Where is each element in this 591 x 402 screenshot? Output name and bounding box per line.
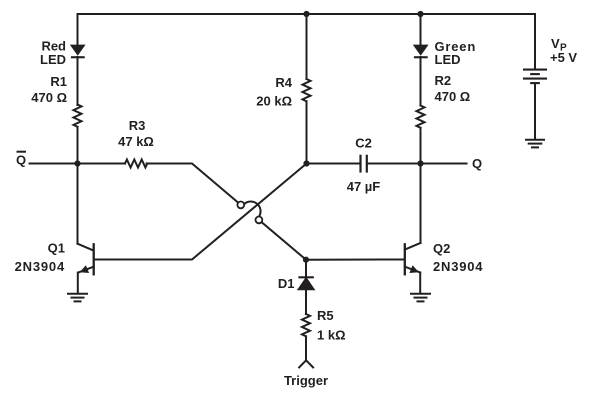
wire R4 to node A: [306, 101, 308, 163]
battery VP: [524, 70, 546, 140]
wire LED green cathode to R2: [420, 57, 422, 106]
wire node A to C2: [307, 163, 360, 165]
svg-text:R5: R5: [317, 308, 334, 323]
svg-text:V: V: [551, 36, 560, 51]
resistor R1: [74, 105, 82, 127]
wire node B to Q2 base: [306, 259, 404, 261]
label VP supply: [550, 36, 577, 65]
crossover circle lower: [256, 217, 263, 224]
svg-text:Q: Q: [472, 156, 482, 171]
svg-text:R2: R2: [435, 73, 452, 88]
LED green: [413, 45, 429, 59]
transistor Q1: [78, 244, 94, 294]
wire Q stub: [421, 163, 467, 165]
crossover circle upper: [237, 202, 244, 209]
wire node B down to D1: [305, 260, 307, 277]
svg-text:2N3904: 2N3904: [15, 259, 65, 274]
svg-text:R3: R3: [129, 118, 146, 133]
ground Q1: [68, 294, 87, 302]
svg-text:LED: LED: [435, 52, 461, 67]
wire Q1 base to node A (ascending): [95, 164, 307, 260]
node R4 rail: [303, 11, 309, 17]
node A: [303, 160, 309, 166]
transistor Q2 emitter arrow: [409, 265, 419, 273]
svg-text:20 kΩ: 20 kΩ: [256, 94, 292, 109]
label Q1: [15, 240, 65, 273]
label Qbar output: [16, 152, 26, 168]
wire R4 top: [306, 14, 308, 79]
node B: [303, 257, 309, 263]
svg-text:Trigger: Trigger: [284, 373, 328, 388]
wire crossover to node B (descending): [259, 220, 306, 260]
svg-text:C2: C2: [355, 136, 372, 151]
label R5 value: [317, 308, 346, 343]
wire R3 to crossover (descending): [147, 164, 241, 205]
label Green LED: [435, 39, 477, 67]
label R3 value: [118, 118, 154, 149]
label R4 value: [256, 75, 292, 109]
svg-text:2N3904: 2N3904: [433, 259, 483, 274]
resistor R2: [417, 106, 425, 128]
LED red: [70, 45, 86, 59]
node Qbar: [74, 160, 80, 166]
wire R5 to trigger: [305, 336, 307, 360]
wire green LED feed: [420, 14, 422, 45]
svg-text:470 Ω: 470 Ω: [31, 90, 67, 105]
wire top rail: [78, 14, 536, 69]
svg-text:R1: R1: [50, 74, 67, 89]
svg-text:LED: LED: [40, 52, 66, 67]
svg-text:D1: D1: [278, 276, 295, 291]
wire R1 to node Qbar: [77, 127, 79, 164]
svg-text:1 kΩ: 1 kΩ: [317, 328, 346, 343]
label Red LED: [40, 39, 66, 68]
node LED green rail: [417, 11, 423, 17]
transistor Q1 emitter arrow: [80, 265, 90, 273]
wire node Qbar to R3: [78, 163, 126, 165]
ground Q2: [411, 294, 430, 302]
trigger input chevron: [299, 360, 313, 367]
wire C2 to node Q: [368, 163, 421, 165]
svg-text:+5 V: +5 V: [550, 50, 577, 65]
wire Qbar stub: [30, 163, 78, 165]
transistor Q2: [405, 243, 421, 294]
svg-text:470 Ω: 470 Ω: [435, 89, 471, 104]
label C2 value: [347, 136, 381, 195]
svg-text:Q1: Q1: [48, 240, 65, 255]
node Q: [417, 160, 423, 166]
svg-text:Q2: Q2: [433, 241, 450, 256]
label R2 value: [435, 73, 471, 104]
wire hop arc: [244, 201, 260, 216]
ground battery: [526, 140, 544, 148]
svg-text:47 kΩ: 47 kΩ: [118, 134, 154, 149]
resistor R5: [302, 314, 310, 336]
diode D1: [299, 277, 314, 314]
svg-text:R4: R4: [275, 75, 292, 90]
resistor R3: [125, 160, 147, 168]
resistor R4: [303, 79, 311, 101]
wire node Qbar down to Q1 collector: [77, 164, 79, 244]
wire LED red cathode to R1: [77, 57, 79, 105]
wire R2 to node Q to Q2 collector: [420, 128, 422, 243]
svg-text:47 µF: 47 µF: [347, 179, 381, 194]
label Q2: [433, 241, 483, 274]
capacitor C2: [361, 156, 367, 172]
svg-text:Q: Q: [16, 152, 26, 167]
label R1 value: [31, 74, 67, 105]
